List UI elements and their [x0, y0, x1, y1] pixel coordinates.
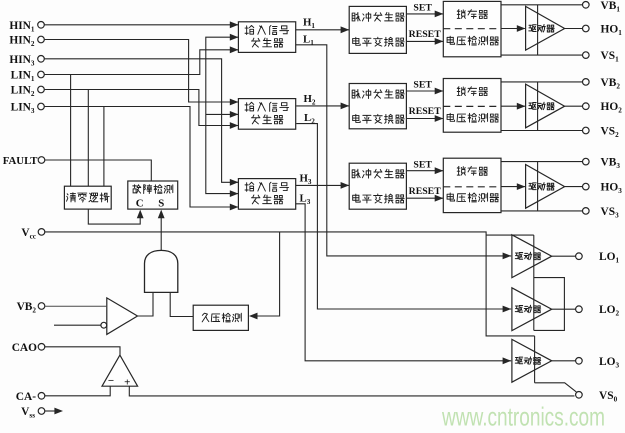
clear logic block [64, 186, 111, 209]
RESET wire ch2 [406, 106, 443, 122]
LO1 line and pin [552, 251, 620, 265]
HO1 line and pin [565, 24, 623, 38]
driver U10 [512, 235, 552, 278]
driver U11 [512, 288, 552, 331]
supply rail through LO1 LO2 [533, 235, 535, 330]
supply rail through driver ch1 [537, 5, 539, 55]
pulse generator / level shifter U4 [349, 6, 406, 53]
driver U1D [526, 6, 565, 50]
wire latch to driver ch3 [501, 183, 525, 190]
wire LIN1 drop to clear logic [70, 75, 72, 187]
supply rail through LO3 [534, 336, 536, 383]
svg-text:CAO: CAO [12, 342, 37, 354]
supply rail through driver ch2 [537, 82, 539, 131]
latch / voltage detector U9 [443, 158, 501, 212]
VB2 line and pin [501, 77, 620, 91]
wire H1 to pulse generator U4 [296, 17, 350, 34]
HO2 line and pin [565, 101, 623, 115]
wire L2 to driver U11 [296, 112, 511, 312]
fault detect block [128, 181, 178, 209]
wire buffer output to AND gate [138, 292, 154, 316]
svg-text:C: C [136, 197, 144, 209]
input pin HIN1 [9, 20, 44, 34]
wire LO3 rail to VS0 pin [535, 383, 577, 392]
comparator CA [102, 355, 138, 388]
input pin HIN3 [9, 54, 44, 68]
AND gate [145, 250, 178, 292]
svg-text:SET: SET [413, 80, 432, 91]
wire LIN3 drop to clear logic [103, 107, 105, 187]
input pin LIN3 [11, 102, 45, 116]
buffer amplifier VB2 path [107, 298, 138, 335]
pulse generator / level shifter U5 [349, 84, 406, 129]
VS0 pin [576, 390, 618, 404]
wire Vcc to undervoltage detect [249, 232, 280, 320]
VS1 line and pin [501, 50, 619, 64]
wire CA- to inverting input [45, 386, 111, 396]
driver U3D [526, 165, 565, 209]
input pin CA- [16, 391, 45, 403]
wire latch to driver ch1 [501, 25, 525, 32]
wire latch to driver ch2 [501, 103, 525, 110]
wire LIN1 to U1 [45, 46, 239, 74]
wire Vcc rail [45, 232, 535, 336]
svg-text:CA-: CA- [16, 391, 36, 403]
wire HIN3 to U3 [45, 59, 239, 186]
svg-text:SET: SET [413, 3, 432, 14]
wire VB2 to buffer [45, 305, 107, 307]
LO3 line and pin [552, 356, 620, 370]
svg-text:www.cntronics.com: www.cntronics.com [441, 401, 605, 431]
wire HIN2 to U2 [45, 40, 239, 106]
svg-text:S: S [158, 197, 164, 209]
wire LIN2 to U2 [45, 90, 239, 129]
RESET wire ch1 [406, 29, 443, 45]
buffer inverting input with bubble [54, 322, 107, 328]
latch / voltage detector U7 [443, 1, 501, 56]
wire H3 to pulse generator U6 [296, 173, 350, 189]
supply rail through driver ch3 [537, 162, 539, 211]
wire undervoltage detect to AND gate [170, 292, 193, 316]
input pin Vcc [21, 227, 44, 241]
input pin FAULT [3, 155, 45, 167]
wire non-inverting input to VS0 line [129, 386, 574, 396]
svg-text:RESET: RESET [409, 29, 442, 40]
svg-text:−: − [108, 375, 114, 387]
driver U12 [512, 339, 552, 382]
VB3 line and pin [501, 157, 620, 171]
COM detour LO1 to LO2 [534, 278, 565, 331]
svg-text:RESET: RESET [409, 186, 442, 197]
wire LIN2 drop to clear logic [87, 90, 89, 187]
input pin LIN1 [11, 70, 45, 84]
wire FAULT to fault detect [45, 160, 152, 181]
input pin HIN2 [9, 35, 44, 49]
SET wire ch2 [406, 80, 443, 95]
wire fault-clear bus to U1 U2 U3 [206, 34, 239, 197]
undervoltage detect block [193, 305, 248, 330]
input signal generator U1 [238, 22, 295, 53]
HO3 line and pin [565, 182, 623, 196]
svg-text:RESET: RESET [409, 106, 442, 117]
input pin CAO [12, 342, 45, 354]
input signal generator U2 [238, 99, 295, 130]
input pin LIN2 [11, 85, 45, 99]
wire L3 to driver U12 [296, 192, 512, 364]
wire CAO to comparator output [45, 347, 120, 355]
SET wire ch1 [406, 3, 443, 18]
wire H2 to pulse generator U5 [296, 93, 349, 109]
RESET wire ch3 [406, 186, 443, 202]
input signal generator U3 [238, 179, 295, 210]
wire clear logic to C input [88, 209, 143, 224]
pulse generator / level shifter U6 [349, 163, 406, 209]
driver U2D [526, 84, 565, 128]
wire AND gate to S input [158, 210, 165, 251]
VS2 line and pin [501, 126, 619, 140]
LO2 line and pin [552, 304, 620, 318]
wire L1 to driver U10 [296, 34, 512, 260]
SET wire ch3 [406, 159, 443, 174]
wire LIN3 to U3 [45, 107, 239, 211]
pin Vss with arrow [21, 406, 63, 420]
latch / voltage detector U8 [443, 79, 501, 133]
VB1 line and pin [501, 0, 620, 13]
svg-text:SET: SET [413, 159, 432, 170]
VS3 line and pin [501, 206, 619, 220]
wire HIN1 to U1 [45, 21, 239, 28]
svg-text:FAULT: FAULT [3, 155, 39, 167]
input pin VB2 [17, 301, 45, 315]
